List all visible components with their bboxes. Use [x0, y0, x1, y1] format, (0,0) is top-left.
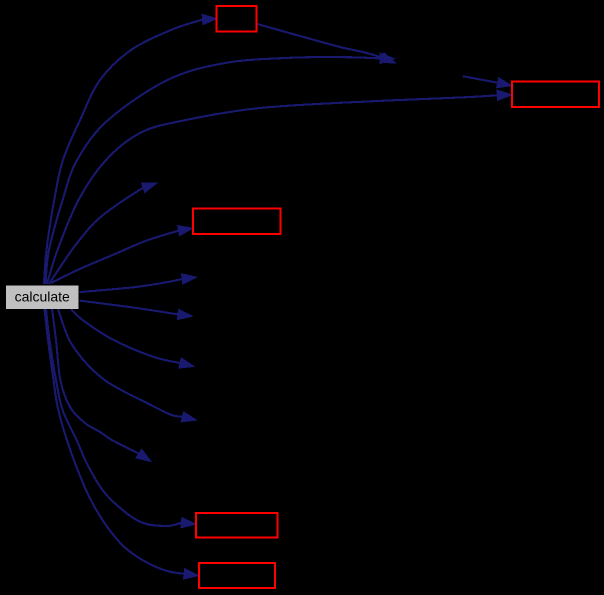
svg-text:calculate: calculate — [15, 289, 70, 305]
